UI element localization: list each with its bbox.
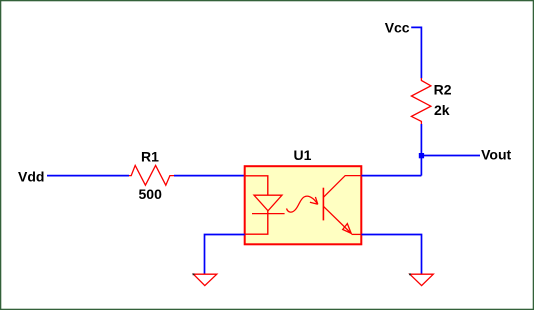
wire Vcc to R2	[411, 27, 421, 78]
U1 LED anode lead	[245, 176, 268, 195]
transistor emitter	[323, 206, 351, 233]
U1 LED cathode bar	[252, 213, 285, 215]
U1 LED cathode lead	[245, 211, 268, 234]
wire R2 to collector node	[420, 124, 422, 176]
svg-text:2k: 2k	[434, 102, 450, 118]
resistor R2	[411, 78, 431, 124]
transistor collector	[323, 176, 361, 198]
wire R1 to U1	[174, 175, 245, 177]
svg-text:Vout: Vout	[481, 147, 511, 163]
wire Vdd to R1	[47, 175, 129, 177]
transistor emitter arrowhead	[343, 224, 352, 234]
transistor emitter pin	[352, 233, 362, 235]
resistor R1	[129, 165, 174, 185]
transistor Q (inside U1) base bar	[322, 188, 324, 221]
wire U1 cathode to ground	[205, 235, 245, 274]
U1 LED triangle	[254, 195, 282, 211]
svg-text:Vcc: Vcc	[385, 19, 410, 35]
svg-text:Vdd: Vdd	[18, 168, 44, 184]
junction Vout node	[419, 153, 424, 158]
wire node to Vout	[421, 155, 480, 157]
wire emitter to ground	[362, 235, 422, 274]
svg-text:500: 500	[139, 186, 163, 202]
svg-text:R1: R1	[141, 148, 159, 164]
svg-text:R2: R2	[434, 81, 452, 97]
U1 light coupling arrow	[287, 196, 318, 212]
ground (left)	[193, 274, 216, 285]
wire collector to node	[362, 175, 422, 177]
optocoupler U1 body	[245, 166, 362, 244]
svg-text:U1: U1	[294, 147, 312, 163]
ground (right)	[410, 274, 434, 285]
